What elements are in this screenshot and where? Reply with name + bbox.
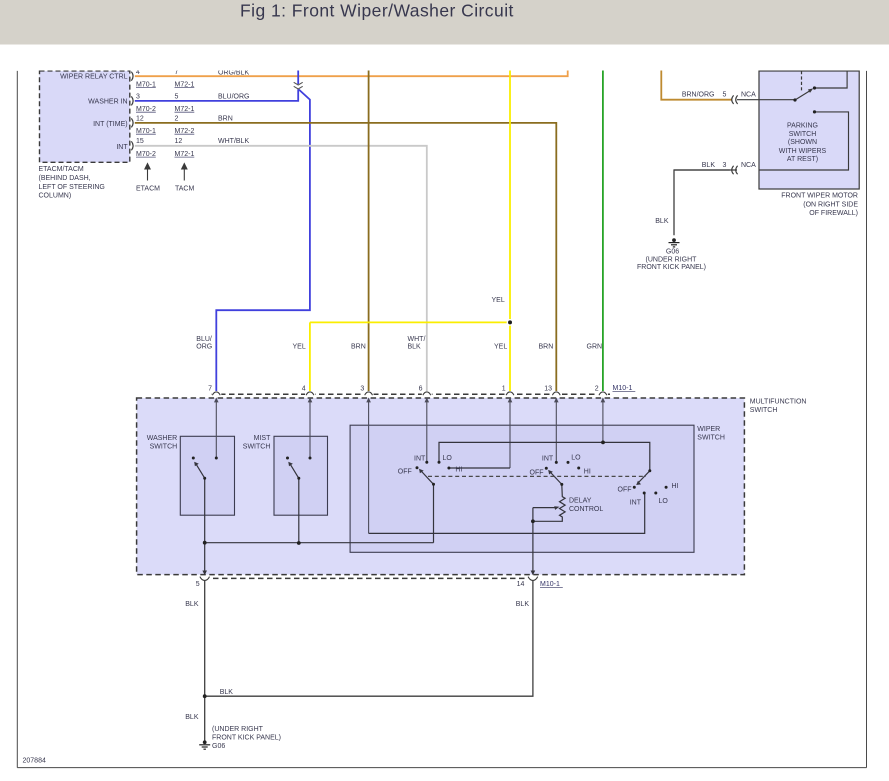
svg-text:5: 5: [175, 93, 179, 100]
svg-text:CONTROL: CONTROL: [569, 506, 603, 513]
svg-text:2: 2: [175, 115, 179, 122]
svg-text:BLK: BLK: [220, 689, 234, 696]
svg-text:HI: HI: [455, 467, 462, 474]
svg-text:15: 15: [136, 138, 144, 145]
svg-text:FRONT KICK PANEL): FRONT KICK PANEL): [637, 264, 706, 271]
svg-text:WASHER IN: WASHER IN: [88, 98, 127, 105]
svg-text:(BEHIND DASH,: (BEHIND DASH,: [39, 175, 91, 182]
svg-text:G06: G06: [212, 743, 225, 750]
svg-text:M10-1: M10-1: [540, 581, 560, 588]
svg-text:BLU/ORG: BLU/ORG: [218, 93, 250, 100]
svg-text:BLK: BLK: [702, 162, 716, 169]
svg-text:SWITCH: SWITCH: [150, 443, 178, 450]
svg-text:12: 12: [175, 138, 183, 145]
svg-text:FRONT KICK PANEL): FRONT KICK PANEL): [212, 735, 281, 742]
svg-text:14: 14: [517, 581, 525, 588]
svg-text:12: 12: [136, 115, 144, 122]
svg-text:3: 3: [136, 93, 140, 100]
svg-text:BRN/ORG: BRN/ORG: [682, 92, 715, 99]
svg-text:YEL: YEL: [494, 343, 507, 350]
svg-text:BRN: BRN: [351, 343, 366, 350]
svg-text:WIPER: WIPER: [697, 426, 720, 433]
svg-text:NCA: NCA: [741, 162, 756, 169]
svg-text:SWITCH: SWITCH: [697, 435, 725, 442]
svg-text:ETACM/TACM: ETACM/TACM: [39, 166, 84, 173]
svg-text:INT (TIME): INT (TIME): [93, 121, 127, 128]
svg-text:ORG: ORG: [196, 343, 212, 350]
svg-text:LO: LO: [659, 498, 669, 505]
svg-text:TACM: TACM: [175, 185, 194, 192]
svg-text:WITH WIPERS: WITH WIPERS: [779, 148, 827, 155]
svg-text:INT: INT: [414, 456, 426, 463]
svg-text:INT: INT: [630, 499, 642, 506]
svg-text:5: 5: [196, 581, 200, 588]
svg-text:SWITCH: SWITCH: [243, 443, 271, 450]
svg-text:FRONT WIPER MOTOR: FRONT WIPER MOTOR: [781, 193, 858, 200]
svg-text:Fig 1: Front Wiper/Washer Circ: Fig 1: Front Wiper/Washer Circuit: [240, 1, 514, 21]
svg-text:WIPER RELAY CTRL: WIPER RELAY CTRL: [60, 74, 128, 81]
svg-text:HI: HI: [672, 483, 679, 490]
svg-text:COLUMN): COLUMN): [39, 193, 72, 200]
svg-text:PARKING: PARKING: [787, 122, 818, 129]
svg-text:DELAY: DELAY: [569, 498, 592, 505]
svg-text:MULTIFUNCTION: MULTIFUNCTION: [750, 398, 807, 405]
svg-text:WHT/BLK: WHT/BLK: [218, 138, 249, 145]
svg-text:OFF: OFF: [618, 486, 632, 493]
svg-text:WHT/: WHT/: [408, 336, 426, 343]
svg-text:3: 3: [723, 162, 727, 169]
svg-text:BRN: BRN: [539, 343, 554, 350]
svg-text:207884: 207884: [23, 758, 46, 765]
svg-text:SWITCH: SWITCH: [789, 131, 817, 138]
svg-text:LO: LO: [571, 455, 581, 462]
svg-text:BRN: BRN: [218, 115, 233, 122]
svg-text:WASHER: WASHER: [147, 435, 177, 442]
svg-text:BLK: BLK: [655, 218, 669, 225]
svg-text:LO: LO: [443, 455, 453, 462]
svg-text:ETACM: ETACM: [136, 185, 160, 192]
svg-text:5: 5: [723, 92, 727, 99]
svg-text:GRN: GRN: [587, 343, 603, 350]
svg-text:(SHOWN: (SHOWN: [788, 139, 817, 146]
svg-text:BLU/: BLU/: [196, 336, 212, 343]
svg-text:OFF: OFF: [530, 470, 544, 477]
svg-text:SWITCH: SWITCH: [750, 407, 778, 414]
svg-text:INT: INT: [116, 144, 128, 151]
svg-text:BLK: BLK: [516, 601, 530, 608]
svg-text:(UNDER RIGHT: (UNDER RIGHT: [646, 256, 698, 263]
svg-text:BLK: BLK: [185, 601, 199, 608]
svg-text:AT REST): AT REST): [787, 156, 818, 163]
svg-text:BLK: BLK: [185, 714, 199, 721]
svg-text:NCA: NCA: [741, 92, 756, 99]
svg-text:M10-1: M10-1: [613, 385, 633, 392]
svg-text:(ON RIGHT SIDE: (ON RIGHT SIDE: [803, 201, 858, 208]
svg-text:HI: HI: [584, 469, 591, 476]
svg-text:MIST: MIST: [254, 435, 271, 442]
svg-text:(UNDER RIGHT: (UNDER RIGHT: [212, 726, 264, 733]
svg-text:OFF: OFF: [398, 469, 412, 476]
svg-text:BLK: BLK: [408, 343, 422, 350]
svg-text:13: 13: [544, 386, 552, 393]
svg-text:LEFT OF STEERING: LEFT OF STEERING: [39, 184, 105, 191]
svg-text:YEL: YEL: [293, 343, 306, 350]
svg-text:OF FIREWALL): OF FIREWALL): [809, 210, 858, 217]
svg-text:INT: INT: [542, 456, 554, 463]
svg-text:G06: G06: [666, 249, 679, 256]
svg-text:YEL: YEL: [492, 297, 505, 304]
